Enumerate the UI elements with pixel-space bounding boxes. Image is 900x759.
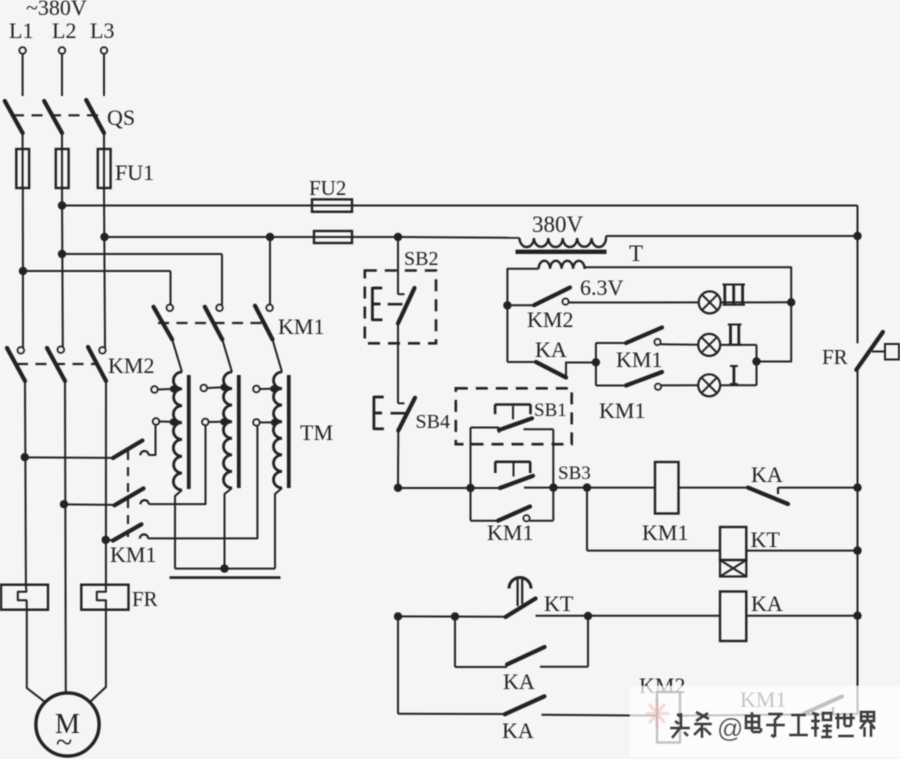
wire W1 bottom lead bbox=[175, 490, 182, 569]
contact FR label bbox=[822, 345, 848, 369]
wire tap1 to W1 lower tap bbox=[149, 425, 156, 455]
contact KM1 aux label bbox=[487, 520, 533, 545]
contact KM1 lamp II label bbox=[616, 347, 662, 372]
motor M letter bbox=[55, 709, 80, 740]
contact KM1 interlock label bbox=[740, 687, 786, 712]
wire L2 column bbox=[61, 188, 64, 348]
coil KT label bbox=[751, 527, 781, 552]
terminal L3 bbox=[101, 47, 107, 53]
contact KM1 lamp I lead bbox=[596, 385, 626, 387]
coil KT body bbox=[720, 527, 746, 560]
wire bottom column bbox=[397, 616, 399, 713]
wire W2 bottom lead bbox=[225, 488, 233, 569]
wire 271 to KM1 feed1 bbox=[23, 270, 171, 272]
contactor KM2 pole2 blade bbox=[47, 348, 65, 381]
contact KA loop blade bbox=[507, 647, 545, 665]
contact KA bottom label bbox=[502, 718, 534, 743]
button SB1 label bbox=[534, 400, 567, 421]
contactor KM2 pole1 blade bbox=[7, 348, 25, 381]
button SB2 blade bbox=[398, 288, 415, 323]
tap switch 1 blade bbox=[113, 441, 142, 459]
contactor KM1 label bbox=[278, 314, 324, 339]
contactor KM2 pole2 fixed contact bbox=[58, 347, 64, 353]
button SB4 blade bbox=[398, 398, 415, 431]
svg-text:KM1: KM1 bbox=[642, 520, 688, 545]
wire W3 bottom lead bbox=[275, 488, 282, 569]
node row A sb-right bbox=[549, 483, 557, 491]
contact KA lamps blade bbox=[536, 362, 566, 378]
fuse FU1 pole2 bbox=[56, 149, 69, 188]
node L3-237 bbox=[100, 233, 108, 241]
svg-text:KA: KA bbox=[503, 669, 535, 694]
fuse FU2 label bbox=[309, 176, 346, 200]
lamp I bbox=[698, 374, 720, 396]
svg-text:KT: KT bbox=[751, 527, 781, 552]
svg-text:TM: TM bbox=[300, 420, 333, 445]
wire SB1 left lead bbox=[471, 428, 500, 433]
svg-text:6.3V: 6.3V bbox=[580, 275, 624, 300]
terminal L1 label bbox=[9, 18, 33, 43]
wire T secondary right lead bbox=[585, 267, 792, 302]
wire L3 lower column bbox=[105, 381, 107, 585]
contactor KM1 pole1 blade bbox=[154, 307, 173, 340]
node lamp III right bbox=[787, 298, 795, 306]
switch QS linkage bbox=[13, 114, 98, 116]
tap switch 1 contact hook bbox=[140, 451, 148, 455]
button SB2 cap bbox=[372, 287, 382, 321]
wire right bus middle bbox=[857, 370, 859, 488]
wire row A right bbox=[778, 487, 858, 489]
watermark sparkle bbox=[647, 700, 668, 727]
wire KT branch drop bbox=[586, 488, 588, 551]
wire motor lead 1 bbox=[27, 610, 45, 702]
relay FR label bbox=[132, 587, 158, 611]
node L3-540 bbox=[102, 536, 110, 544]
wire L1 column bbox=[22, 188, 24, 348]
button SB2 dashed box bbox=[365, 271, 436, 344]
relay FR heater 1 box bbox=[1, 585, 48, 610]
node row C KA loop right bbox=[584, 612, 592, 620]
tap terminal W3 upper bbox=[253, 385, 277, 392]
svg-text:T: T bbox=[629, 241, 643, 266]
button SB1 cap bbox=[495, 405, 531, 415]
wire QS1 to FU1 bbox=[22, 133, 24, 150]
tap switch 2 contact hook bbox=[140, 500, 148, 504]
lamp II bbox=[698, 334, 720, 356]
coil KT delay box bbox=[720, 560, 746, 577]
contactor KM2 pole1 fixed contact bbox=[18, 347, 24, 353]
svg-text:~: ~ bbox=[56, 726, 72, 759]
contactor KM1 pole3 fixed contact bbox=[266, 305, 272, 311]
button SB3 label bbox=[558, 463, 591, 484]
transformer TM winding 2 bbox=[223, 372, 232, 488]
transformer T primary bbox=[520, 238, 607, 247]
contact KA loop label bbox=[503, 669, 535, 694]
contact KM2 lamp III blade bbox=[534, 288, 570, 306]
wire bottom row left bbox=[398, 713, 505, 715]
node lamps II-I right bbox=[752, 357, 760, 365]
transformer T core bbox=[516, 250, 607, 254]
svg-text:@: @ bbox=[717, 713, 743, 743]
svg-text:L2: L2 bbox=[52, 18, 76, 43]
tap terminal W3 lower bbox=[253, 419, 278, 426]
contact KM1 interlock blade bbox=[804, 697, 842, 714]
wire T secondary left lead bbox=[507, 269, 538, 306]
svg-text:QS: QS bbox=[107, 105, 135, 130]
wire row A left bbox=[398, 487, 500, 489]
wire right bus lower bbox=[857, 488, 859, 616]
contact FR heater link bbox=[872, 351, 885, 353]
contact KM1 aux blade bbox=[498, 507, 530, 521]
contact FR blade bbox=[856, 332, 883, 370]
wire QS3 to FU1 bbox=[103, 133, 105, 150]
node row A right bus bbox=[853, 483, 861, 491]
transformer T label bbox=[629, 241, 643, 266]
node TM star bbox=[220, 564, 228, 572]
svg-text:FU2: FU2 bbox=[309, 176, 346, 200]
watermark site name bbox=[746, 712, 875, 737]
node L2-504 bbox=[60, 500, 68, 508]
contact KA lamps label bbox=[535, 337, 567, 362]
contact KT delayed label bbox=[544, 591, 574, 616]
tap switch 3 contact hook bbox=[140, 534, 148, 538]
button SB4 label bbox=[416, 411, 450, 433]
wire lamp II-I right bus bbox=[757, 302, 792, 361]
coil KM1 label bbox=[642, 520, 688, 545]
wire L3 to tap switch 3 bbox=[106, 539, 113, 541]
contact KA NC tick bbox=[777, 488, 779, 494]
tap terminal W2 lower bbox=[202, 418, 227, 425]
contact KA NC blade bbox=[748, 488, 788, 504]
node L1-457 bbox=[21, 453, 29, 461]
svg-text:L3: L3 bbox=[90, 18, 114, 43]
wire to lamp III bbox=[569, 301, 699, 303]
wire TM star point bbox=[175, 568, 275, 570]
contactor KM1 pole2 fixed contact bbox=[216, 305, 222, 311]
node L2-254 bbox=[58, 250, 66, 258]
contactor KM2 pole3 blade bbox=[88, 347, 106, 381]
transformer T 380V label bbox=[532, 212, 584, 237]
svg-text:SB3: SB3 bbox=[558, 463, 591, 484]
wire SB1 branch left bbox=[470, 428, 472, 489]
wire row A after SB3 bbox=[524, 487, 655, 489]
contact KM1 aux fixed bbox=[524, 515, 530, 521]
relay FR heater 1 element bbox=[18, 585, 27, 610]
button SB1 dashed box bbox=[456, 388, 572, 444]
coil KM2 label bbox=[639, 673, 685, 698]
coil KA label bbox=[751, 591, 783, 616]
transformer TM core 2 bbox=[237, 375, 241, 488]
coil KA body bbox=[720, 592, 746, 642]
terminal L2 label bbox=[52, 18, 76, 43]
fuse FU1 pole1 bbox=[16, 149, 29, 188]
contact KA NC label bbox=[751, 462, 783, 487]
switch QS pole 1 blade bbox=[5, 101, 23, 133]
contact KT delay symbol bbox=[509, 578, 531, 607]
svg-text:SB4: SB4 bbox=[416, 411, 450, 433]
wire right bus bottom bbox=[857, 616, 859, 715]
node row A sb-left bbox=[466, 484, 474, 492]
contact KM1 lamp II lead bbox=[596, 342, 626, 344]
button SB3 blade bbox=[500, 476, 533, 488]
wire SB2 column top bbox=[398, 237, 405, 294]
wire KM1 aux branch right bbox=[552, 488, 554, 521]
wire L1 lower column bbox=[24, 381, 27, 585]
svg-text:L1: L1 bbox=[9, 18, 33, 43]
node SB2 column top bbox=[394, 233, 402, 241]
svg-text:SB1: SB1 bbox=[534, 400, 567, 421]
wire KM1 aux right lead bbox=[530, 520, 554, 522]
terminal L3 label bbox=[90, 18, 114, 43]
fuse FU1 label bbox=[115, 160, 154, 185]
contact KM1 interlock tick bbox=[832, 707, 834, 714]
transformer T secondary bbox=[539, 261, 585, 269]
switch QS pole 3 blade bbox=[86, 100, 104, 133]
node KM1 feed3 bbox=[266, 233, 274, 241]
wire tap3 to W3 lower tap bbox=[148, 426, 257, 539]
coil KM1 bbox=[655, 462, 679, 514]
node right bus primary bbox=[853, 232, 861, 240]
svg-text:KM1: KM1 bbox=[278, 314, 324, 339]
tap switch KM1 label bbox=[110, 542, 156, 567]
button SB1 blade bbox=[499, 418, 532, 430]
wire right bus top bbox=[857, 206, 859, 344]
wire to lamp II bbox=[661, 343, 699, 345]
wire bottom row middle bbox=[542, 714, 658, 717]
node row C KA loop left bbox=[451, 612, 459, 620]
wire tap2 to W2 lower tap bbox=[149, 425, 206, 504]
svg-text:FU1: FU1 bbox=[115, 160, 154, 185]
contact KM2 label bbox=[527, 307, 573, 332]
svg-text:KA: KA bbox=[502, 718, 534, 743]
contactor KM1 linkage bbox=[158, 322, 263, 324]
svg-text:FR: FR bbox=[822, 345, 848, 369]
wire QS2 to FU1 bbox=[61, 133, 63, 150]
net label ~380V bbox=[26, 0, 87, 20]
tap terminal W1 upper bbox=[151, 385, 177, 392]
svg-text:KM1: KM1 bbox=[616, 347, 662, 372]
svg-text:KT: KT bbox=[544, 591, 574, 616]
wire KM1 feed1 drop bbox=[170, 271, 172, 305]
button SB3 cap bbox=[495, 462, 531, 473]
fuse FU2a bbox=[312, 199, 352, 211]
tap switch 3 blade bbox=[113, 524, 141, 540]
contact KM1 lamp II blade bbox=[626, 328, 662, 344]
relay FR heater 2 element bbox=[97, 585, 106, 610]
svg-text:KA: KA bbox=[751, 591, 783, 616]
wire row C left bbox=[398, 615, 508, 617]
wire KA loop right bbox=[540, 616, 588, 667]
tap switch linkage bbox=[127, 451, 129, 537]
wire row C right bbox=[746, 615, 857, 617]
transformer T 6.3V label bbox=[580, 275, 624, 300]
wire L3 drop to QS bbox=[103, 54, 105, 96]
node lamp II-I left bbox=[592, 358, 600, 366]
contactor KM2 pole3 fixed contact bbox=[99, 347, 105, 353]
wire T primary right lead bbox=[606, 236, 858, 238]
wire SB1 branch right bbox=[552, 429, 554, 487]
fuse FU1 pole1 wire bbox=[22, 150, 24, 188]
switch QS pole 2 blade bbox=[44, 101, 62, 133]
svg-text:KA: KA bbox=[751, 462, 783, 487]
svg-text:KM1: KM1 bbox=[599, 398, 645, 423]
contact KM2 lamp III lead bbox=[507, 304, 534, 306]
transformer TM winding 1 bbox=[173, 372, 182, 490]
button SB2 label bbox=[404, 248, 438, 270]
contact KM1 lamp I fixed bbox=[655, 384, 661, 390]
wire L1 drop to QS bbox=[22, 54, 24, 96]
tap switch 2 blade bbox=[115, 488, 144, 505]
wire KM1 feed2 drop bbox=[221, 254, 223, 305]
wire L2 lower column bbox=[64, 381, 67, 693]
relay FR heater 2 box bbox=[81, 585, 128, 610]
button SB4 rod bbox=[391, 412, 405, 415]
svg-text:KM2: KM2 bbox=[527, 307, 573, 332]
wire control phase A bbox=[62, 205, 858, 207]
watermark fade band bbox=[630, 686, 900, 757]
wire KM1 aux left lead bbox=[471, 520, 499, 522]
wire SB4 to row A bbox=[397, 431, 399, 488]
tap terminal W1 lower bbox=[153, 418, 177, 425]
wire KT coil right bbox=[746, 550, 857, 552]
svg-text:SB2: SB2 bbox=[404, 248, 438, 270]
node KT right bus bbox=[853, 546, 861, 554]
svg-text:FR: FR bbox=[132, 587, 158, 611]
wire SB2 to SB4 bbox=[398, 323, 404, 403]
svg-text:KM2: KM2 bbox=[108, 353, 154, 378]
contact KT delayed blade bbox=[506, 599, 536, 618]
button SB2 rod bbox=[388, 303, 403, 306]
lamp III numeral bbox=[723, 285, 746, 305]
wire KM1 feed3 drop bbox=[269, 237, 271, 305]
wire lamp feed drop bbox=[506, 305, 508, 362]
wire bottom row right bbox=[680, 714, 858, 716]
svg-text:KA: KA bbox=[535, 337, 567, 362]
lamp III bbox=[699, 291, 721, 313]
wire KM1 pole3 to coil3 bbox=[273, 340, 283, 373]
node row A KT branch bbox=[583, 483, 591, 491]
watermark toutiao icon text bbox=[670, 712, 712, 738]
contactor KM1 pole3 blade bbox=[255, 306, 273, 340]
node row A SB4 bbox=[394, 484, 402, 492]
lamp I numeral bbox=[730, 366, 738, 384]
terminal L1 bbox=[19, 47, 25, 53]
tap terminal W2 upper bbox=[201, 384, 228, 392]
node row C SB4 column bbox=[394, 612, 402, 620]
contactor KM2 linkage bbox=[17, 363, 96, 365]
wire lamp III right bbox=[721, 301, 792, 303]
wire lamp II right bbox=[720, 344, 756, 346]
transformer TM winding 3 bbox=[273, 372, 282, 488]
contactor KM1 pole1 fixed contact bbox=[167, 305, 173, 311]
node L2-FU2a bbox=[58, 201, 66, 209]
watermark at sign bbox=[717, 713, 743, 743]
wire 254 to KM1 feed2 bbox=[62, 253, 222, 255]
wire L1 to tap switch 1 bbox=[25, 456, 113, 459]
fuse FU2b bbox=[314, 231, 352, 243]
wire 237 to KM1 feed3 bbox=[105, 236, 271, 238]
wire L3 column bbox=[104, 188, 105, 348]
svg-text:~380V: ~380V bbox=[26, 0, 87, 20]
wire KA loop left bbox=[455, 617, 507, 668]
wire L2 to tap switch 2 bbox=[64, 503, 115, 506]
wire row C middle bbox=[536, 615, 721, 617]
TM star bar bbox=[170, 576, 281, 579]
contact KM1 lamp I label bbox=[599, 398, 645, 423]
button SB3 rod bbox=[513, 463, 515, 477]
transformer TM label bbox=[300, 420, 333, 445]
wire KM1 aux branch left bbox=[470, 488, 472, 521]
fuse FU1 pole3 wire bbox=[103, 150, 105, 188]
fuse FU1 pole2 wire bbox=[61, 150, 63, 188]
wire KM1 pole1 to coil1 bbox=[172, 340, 182, 373]
switch QS label bbox=[107, 105, 135, 130]
svg-text:KM1: KM1 bbox=[110, 542, 156, 567]
contact KA bottom blade bbox=[505, 696, 545, 714]
motor M circle bbox=[36, 693, 99, 756]
contact FR heater box bbox=[885, 344, 899, 360]
terminal L2 bbox=[59, 47, 65, 53]
lamp II numeral bbox=[728, 325, 742, 345]
button SB4 cap bbox=[374, 396, 384, 430]
node L1-271 bbox=[19, 267, 27, 275]
node lamp feed left bbox=[503, 301, 511, 309]
svg-text:380V: 380V bbox=[532, 212, 584, 237]
wire L2 drop to QS bbox=[61, 54, 63, 96]
wire SB1 right lead bbox=[524, 428, 554, 430]
contact KA lamps lead bbox=[507, 361, 536, 363]
transformer TM core 3 bbox=[287, 375, 291, 488]
wire lamp II-I left vertical bbox=[595, 343, 597, 386]
contact KM1 lamp II fixed bbox=[655, 339, 661, 345]
button SB1 rod bbox=[512, 406, 514, 420]
wire lamps II-I right vertical bbox=[756, 345, 758, 385]
wire KT branch lead bbox=[587, 550, 720, 552]
coil KM2 body bbox=[657, 692, 680, 743]
contact KA lamps step bbox=[566, 363, 596, 378]
wire row A to KA contact bbox=[679, 487, 749, 489]
wire to lamp I bbox=[661, 384, 698, 386]
wire lamp I right bbox=[720, 384, 756, 386]
transformer TM core 1 bbox=[187, 375, 191, 489]
node row C right bus bbox=[853, 612, 861, 620]
svg-text:KM1: KM1 bbox=[487, 520, 533, 545]
wire 237 to transformer T bbox=[398, 236, 520, 239]
contactor KM2 label bbox=[108, 353, 154, 378]
fuse FU1 pole3 bbox=[98, 149, 111, 188]
contact KM2 lamp III fixed bbox=[563, 299, 569, 305]
wire KM1 pole2 to coil2 bbox=[222, 340, 232, 373]
contactor KM1 pole2 blade bbox=[205, 307, 223, 340]
motor M tilde bbox=[56, 726, 72, 759]
wire motor lead 3 bbox=[90, 610, 106, 702]
contact KM1 lamp I blade bbox=[626, 372, 662, 386]
wire 237 to FU2b bbox=[270, 236, 398, 238]
